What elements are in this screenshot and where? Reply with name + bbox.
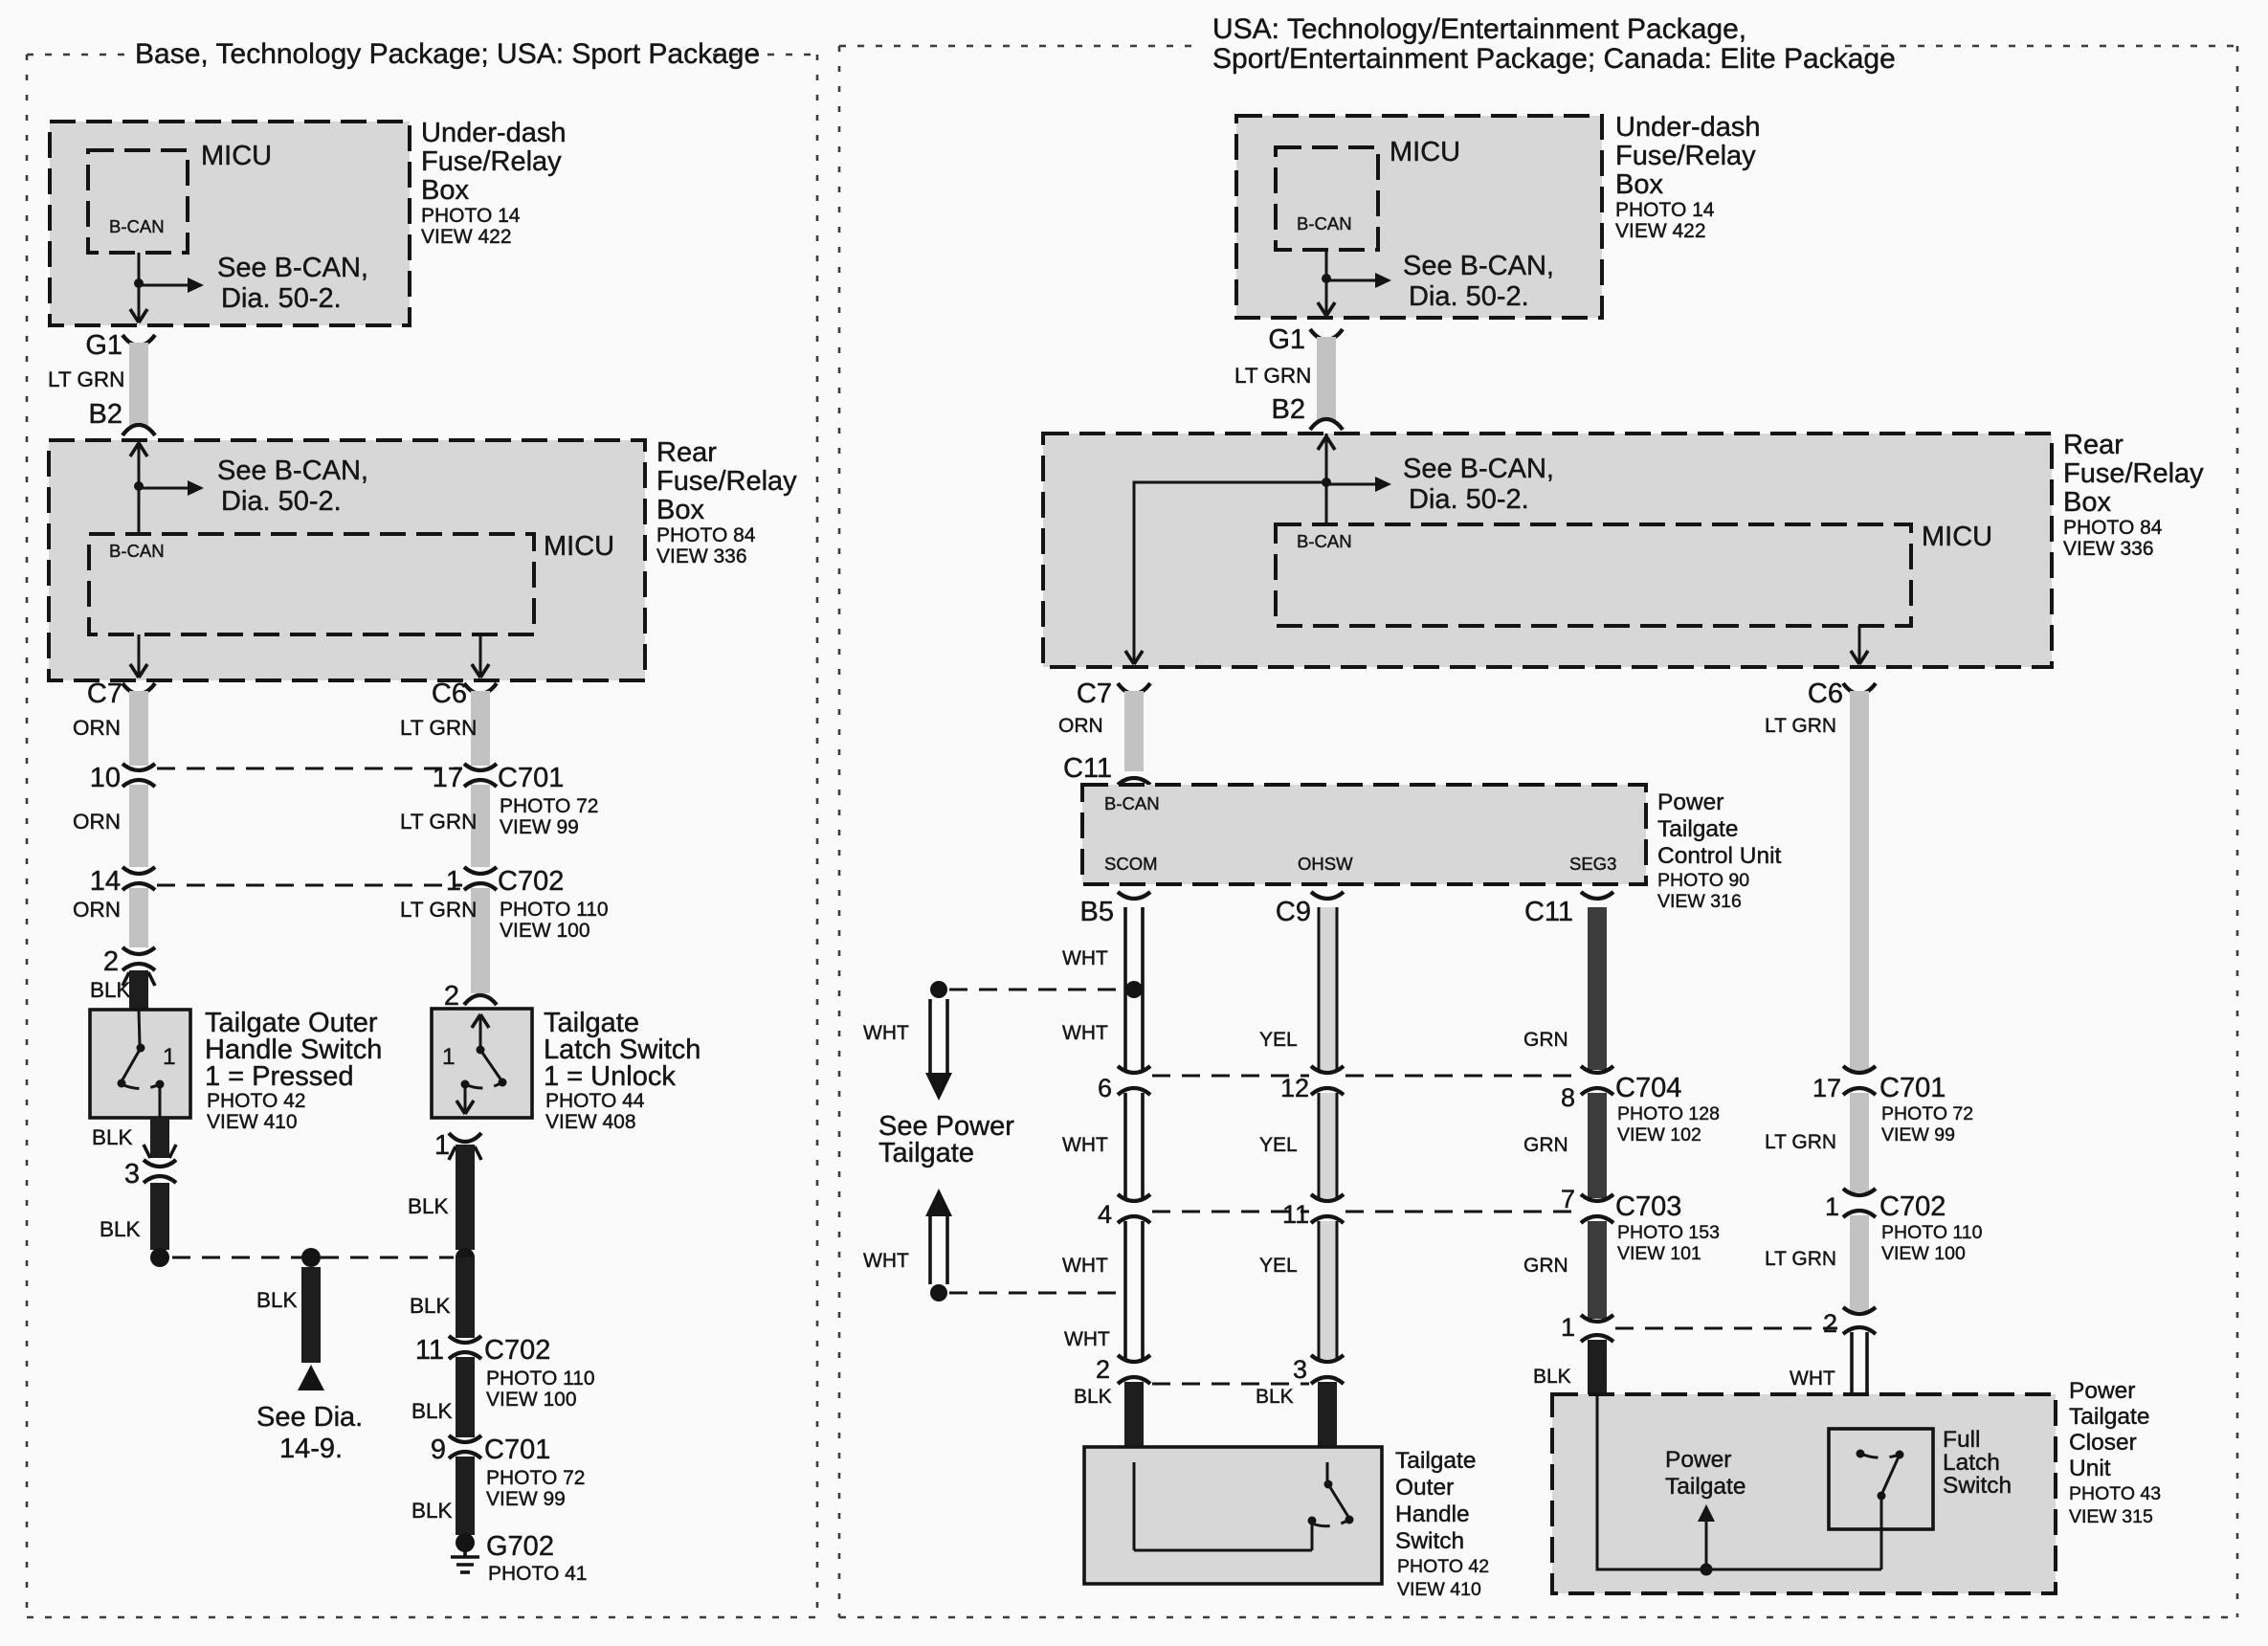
MICU inner box (left rear) [89, 534, 534, 634]
svg-text:Tailgate: Tailgate [1657, 816, 1738, 842]
svg-text:Dia. 50-2.: Dia. 50-2. [1409, 281, 1529, 312]
junction dot left arrow bottom [930, 1284, 947, 1301]
svg-text:OHSW: OHSW [1298, 854, 1353, 874]
Under-dash Fuse/Relay Box (right) [1236, 116, 1602, 318]
dashed link 4-11-7 [1152, 1211, 1309, 1213]
svg-text:Under-dash: Under-dash [421, 118, 567, 148]
stub wire BLK to See Dia (left) [301, 1267, 321, 1363]
svg-text:B-CAN: B-CAN [1297, 531, 1352, 551]
svg-text:VIEW 422: VIEW 422 [421, 226, 512, 248]
wire ORN C7-C11 (right) [1124, 691, 1144, 771]
svg-text:LT GRN: LT GRN [400, 898, 477, 922]
svg-text:See B-CAN,: See B-CAN, [1403, 454, 1554, 484]
wire BLK latch-junction (left) [456, 1145, 475, 1250]
MICU inner box (left under-dash) [88, 150, 188, 253]
svg-text:Dia. 50-2.: Dia. 50-2. [221, 486, 342, 517]
svg-text:PHOTO 42: PHOTO 42 [1397, 1556, 1489, 1577]
svg-text:2: 2 [103, 946, 119, 977]
junction dot on bus [1701, 1564, 1713, 1576]
svg-text:PHOTO 110: PHOTO 110 [486, 1368, 595, 1390]
svg-text:VIEW 410: VIEW 410 [207, 1111, 298, 1133]
svg-text:Switch: Switch [1395, 1528, 1464, 1554]
wire BLK B5 into handle switch (right) [1124, 1382, 1144, 1464]
arrow to See B-CAN (left rear) [139, 487, 193, 490]
junction dot on B5 [1125, 981, 1143, 998]
Tailgate Latch Switch (left) [432, 1009, 532, 1118]
svg-text:B5: B5 [1080, 897, 1114, 927]
wire GRN C11 seg1 [1588, 907, 1607, 1070]
svg-text:VIEW 100: VIEW 100 [500, 920, 590, 942]
svg-text:PHOTO 72: PHOTO 72 [1881, 1103, 1973, 1124]
svg-text:VIEW 100: VIEW 100 [486, 1389, 577, 1411]
svg-text:1: 1 [1561, 1313, 1575, 1342]
svg-text:PHOTO 110: PHOTO 110 [1881, 1222, 1983, 1243]
svg-text:3: 3 [124, 1159, 140, 1190]
svg-text:GRN: GRN [1523, 1134, 1568, 1156]
svg-text:VIEW 99: VIEW 99 [500, 816, 579, 838]
svg-text:8: 8 [1561, 1083, 1575, 1112]
svg-text:B-CAN: B-CAN [1104, 793, 1160, 813]
svg-text:1: 1 [163, 1044, 176, 1070]
wire BLK 9-G702 (left) [456, 1457, 475, 1535]
svg-text:C701: C701 [1879, 1073, 1946, 1103]
svg-text:LT GRN: LT GRN [400, 716, 477, 740]
svg-text:Box: Box [421, 175, 469, 206]
svg-text:VIEW 102: VIEW 102 [1617, 1124, 1701, 1146]
svg-text:YEL: YEL [1259, 1255, 1298, 1277]
svg-text:G1: G1 [1268, 324, 1305, 355]
svg-text:Dia. 50-2.: Dia. 50-2. [1409, 484, 1529, 515]
svg-text:BLK: BLK [1074, 1386, 1112, 1408]
dashed link to WHT arrow [949, 989, 1123, 991]
wire to C6 (left rear) [479, 634, 482, 678]
svg-text:Latch: Latch [1943, 1450, 2000, 1476]
svg-text:BLK: BLK [410, 1294, 451, 1318]
svg-text:PHOTO 72: PHOTO 72 [486, 1467, 585, 1489]
svg-text:1: 1 [1825, 1192, 1839, 1221]
wire YEL C9 seg3 [1319, 1221, 1337, 1359]
svg-text:Tailgate: Tailgate [878, 1138, 974, 1168]
wire B2 into rear box (left) [138, 440, 141, 534]
svg-text:C7: C7 [1077, 678, 1112, 709]
svg-text:PHOTO 14: PHOTO 14 [1615, 199, 1715, 221]
wire GRN C11 seg3 [1588, 1221, 1607, 1319]
svg-text:VIEW 101: VIEW 101 [1617, 1243, 1701, 1264]
svg-text:Rear: Rear [2063, 430, 2123, 460]
svg-text:Fuse/Relay: Fuse/Relay [2063, 458, 2204, 489]
svg-text:B2: B2 [1272, 394, 1305, 425]
junction node A (left bottom) [150, 1248, 169, 1267]
up triangle arrow (See Dia) [298, 1365, 324, 1390]
Tailgate Outer Handle Switch (right) [1084, 1447, 1382, 1584]
wire from B-CAN down (right under-dash) [1325, 250, 1328, 316]
svg-text:VIEW 410: VIEW 410 [1397, 1579, 1481, 1600]
svg-text:VIEW 408: VIEW 408 [545, 1111, 636, 1133]
svg-text:Fuse/Relay: Fuse/Relay [656, 466, 797, 497]
svg-text:ORN: ORN [73, 716, 121, 740]
svg-text:WHT: WHT [863, 1250, 909, 1272]
svg-text:C701: C701 [498, 763, 564, 793]
wire LT GRN 1-2 (left) [471, 888, 490, 993]
up arrow Power Tailgate [1705, 1512, 1708, 1569]
svg-text:Fuse/Relay: Fuse/Relay [421, 146, 562, 177]
down arrow at box exit (left under-dash) [130, 309, 147, 323]
svg-text:2: 2 [1096, 1355, 1110, 1384]
junction node (left rear) [134, 481, 144, 491]
WHT down arrow (See Power Tailgate) [930, 999, 947, 1074]
dashed link 6-12-8 [1152, 1075, 1309, 1078]
svg-text:12: 12 [1280, 1074, 1309, 1102]
branch wire to C7 (right rear) [1134, 482, 1326, 664]
WHT up arrow (See Power Tailgate) [925, 1189, 952, 1216]
svg-text:VIEW 316: VIEW 316 [1657, 891, 1742, 912]
junction dot left arrow top [930, 981, 947, 998]
svg-text:Handle: Handle [1395, 1501, 1470, 1527]
svg-text:SEG3: SEG3 [1569, 854, 1616, 874]
svg-text:WHT: WHT [1062, 1255, 1108, 1277]
svg-text:PHOTO 153: PHOTO 153 [1617, 1222, 1720, 1243]
svg-text:Control Unit: Control Unit [1657, 843, 1782, 869]
wire ORN 14-2 (left) [129, 888, 148, 947]
svg-text:LT GRN: LT GRN [1234, 364, 1311, 388]
left panel dotted border [27, 55, 817, 1617]
svg-text:VIEW 99: VIEW 99 [486, 1488, 566, 1510]
svg-text:Tailgate: Tailgate [2069, 1404, 2149, 1430]
svg-text:BLK: BLK [90, 978, 131, 1002]
Under-dash Fuse/Relay Box (left) [50, 122, 410, 325]
internal wire from BLK [1597, 1394, 1881, 1569]
Full Latch Switch box [1829, 1429, 1933, 1529]
wire WHT into closer unit [1852, 1332, 1867, 1451]
svg-text:Power: Power [1657, 790, 1723, 815]
Rear Fuse/Relay Box (right) [1043, 434, 2052, 667]
svg-text:PHOTO 84: PHOTO 84 [656, 524, 756, 546]
svg-text:GRN: GRN [1523, 1255, 1568, 1277]
svg-text:YEL: YEL [1259, 1134, 1298, 1156]
wire BLK junction-11 (left) [456, 1257, 475, 1338]
svg-text:PHOTO 72: PHOTO 72 [500, 795, 598, 817]
wire LT GRN G1-B2 (right) [1317, 337, 1336, 421]
svg-text:MICU: MICU [201, 141, 272, 171]
MICU inner box (right rear) [1276, 524, 1911, 626]
svg-text:Switch: Switch [1943, 1473, 2012, 1499]
svg-text:14-9.: 14-9. [279, 1434, 343, 1464]
svg-text:6: 6 [1098, 1074, 1112, 1102]
svg-text:Sport/Entertainment Package; C: Sport/Entertainment Package; Canada: Eli… [1212, 43, 1896, 75]
svg-text:MICU: MICU [1390, 137, 1460, 167]
svg-text:Dia. 50-2.: Dia. 50-2. [221, 283, 342, 314]
wire LT GRN C6-17 (left) [471, 691, 490, 766]
svg-text:GRN: GRN [1523, 1029, 1568, 1051]
svg-text:1 = Unlock: 1 = Unlock [544, 1061, 676, 1092]
junction node B (left bottom) [301, 1248, 321, 1267]
svg-text:C702: C702 [1879, 1191, 1946, 1222]
svg-text:PHOTO 128: PHOTO 128 [1617, 1103, 1720, 1124]
right panel dotted border [839, 46, 2237, 1617]
svg-text:C11: C11 [1524, 897, 1573, 927]
wire BLK into closer unit [1588, 1340, 1607, 1407]
svg-text:See Dia.: See Dia. [256, 1402, 363, 1433]
svg-text:See B-CAN,: See B-CAN, [1403, 251, 1554, 281]
svg-text:C7: C7 [87, 678, 122, 709]
svg-text:PHOTO 84: PHOTO 84 [2063, 517, 2163, 539]
svg-text:Tailgate: Tailgate [1665, 1474, 1745, 1500]
wire BLK below handle switch (left) [150, 1118, 169, 1158]
svg-text:LT GRN: LT GRN [48, 367, 124, 391]
svg-text:Closer: Closer [2069, 1430, 2137, 1456]
svg-text:G702: G702 [486, 1531, 554, 1562]
svg-text:PHOTO 110: PHOTO 110 [500, 899, 609, 921]
svg-text:C704: C704 [1615, 1073, 1681, 1103]
Rear Fuse/Relay Box (left) [49, 440, 645, 680]
svg-text:4: 4 [1098, 1200, 1112, 1229]
svg-text:ORN: ORN [73, 810, 121, 834]
svg-text:1: 1 [446, 866, 461, 897]
svg-text:VIEW 336: VIEW 336 [656, 545, 747, 567]
svg-text:11: 11 [415, 1335, 444, 1366]
svg-text:Box: Box [1615, 169, 1663, 200]
svg-text:WHT: WHT [863, 1022, 909, 1044]
svg-text:LT GRN: LT GRN [1765, 1131, 1836, 1153]
svg-text:Box: Box [656, 495, 704, 525]
svg-text:LT GRN: LT GRN [400, 810, 477, 834]
svg-text:C701: C701 [484, 1435, 550, 1465]
svg-text:YEL: YEL [1259, 1029, 1298, 1051]
svg-text:C6: C6 [1808, 678, 1843, 709]
svg-text:PHOTO 43: PHOTO 43 [2069, 1483, 2161, 1504]
arrow to See B-CAN (left under-dash) [139, 284, 193, 287]
svg-text:VIEW 336: VIEW 336 [2063, 538, 2154, 560]
svg-text:B-CAN: B-CAN [1297, 213, 1352, 234]
svg-text:Rear: Rear [656, 437, 717, 468]
svg-text:PHOTO 90: PHOTO 90 [1657, 870, 1749, 891]
dashed ground bus (left bottom) [172, 1257, 454, 1259]
svg-text:C11: C11 [1063, 753, 1112, 784]
svg-text:ORN: ORN [1058, 715, 1103, 737]
svg-text:USA: Technology/Entertainment: USA: Technology/Entertainment Package, [1212, 13, 1746, 45]
svg-text:SCOM: SCOM [1104, 854, 1158, 874]
junction node (left under-dash) [134, 278, 144, 288]
dashed link 14-1 [157, 884, 462, 887]
svg-text:PHOTO 41: PHOTO 41 [488, 1563, 587, 1585]
svg-text:WHT: WHT [1062, 1134, 1108, 1156]
svg-text:1 = Pressed: 1 = Pressed [205, 1061, 354, 1092]
svg-text:17: 17 [433, 763, 463, 793]
up arrow into B2 (left rear) [130, 443, 147, 456]
svg-text:Fuse/Relay: Fuse/Relay [1615, 141, 1756, 171]
wire WHT B5 seg2 [1125, 1093, 1143, 1198]
svg-text:9: 9 [431, 1435, 446, 1465]
svg-text:1: 1 [442, 1044, 456, 1070]
svg-text:C702: C702 [498, 866, 564, 897]
ground G702 [456, 1533, 475, 1552]
wire LT GRN G1-B2 (left) [129, 343, 148, 427]
svg-text:17: 17 [1812, 1074, 1841, 1102]
svg-text:Unit: Unit [2069, 1456, 2111, 1481]
svg-text:Power: Power [1665, 1447, 1731, 1473]
svg-text:2: 2 [444, 981, 459, 1012]
svg-text:VIEW 99: VIEW 99 [1881, 1124, 1955, 1146]
svg-text:BLK: BLK [92, 1125, 133, 1149]
svg-text:10: 10 [90, 763, 121, 793]
svg-text:See B-CAN,: See B-CAN, [217, 456, 368, 486]
junction node (right under-dash) [1322, 274, 1331, 283]
svg-text:WHT: WHT [1062, 1022, 1108, 1044]
svg-text:LT GRN: LT GRN [1765, 715, 1836, 737]
svg-text:7: 7 [1561, 1185, 1575, 1213]
junction node C (left bottom) [456, 1248, 475, 1267]
svg-text:WHT: WHT [1062, 947, 1108, 969]
svg-text:LT GRN: LT GRN [1765, 1248, 1836, 1270]
svg-text:MICU: MICU [544, 531, 614, 562]
svg-text:B-CAN: B-CAN [109, 541, 165, 561]
svg-text:MICU: MICU [1922, 522, 1992, 552]
wire YEL C9 seg2 [1319, 1093, 1337, 1198]
svg-text:VIEW 315: VIEW 315 [2069, 1506, 2153, 1527]
svg-text:1: 1 [434, 1130, 450, 1161]
svg-text:Full: Full [1943, 1427, 1980, 1453]
svg-text:Outer: Outer [1395, 1475, 1454, 1501]
wire LT GRN 1-2 (right far) [1850, 1215, 1869, 1311]
svg-text:BLK: BLK [411, 1499, 453, 1523]
svg-text:Box: Box [2063, 487, 2111, 518]
svg-text:G1: G1 [85, 330, 122, 361]
svg-text:2: 2 [1823, 1309, 1837, 1338]
svg-text:See B-CAN,: See B-CAN, [217, 253, 368, 283]
svg-text:3: 3 [1293, 1355, 1307, 1384]
svg-text:14: 14 [90, 866, 121, 897]
dashed link 2-3 [1152, 1383, 1309, 1386]
junction node (right rear) [1322, 478, 1331, 487]
svg-text:PHOTO 44: PHOTO 44 [545, 1090, 645, 1112]
svg-text:Under-dash: Under-dash [1615, 112, 1761, 143]
svg-text:C9: C9 [1276, 897, 1311, 927]
svg-text:ORN: ORN [73, 898, 121, 922]
wire WHT B5 seg1 [1125, 907, 1143, 1070]
up arrow into B2 (right rear) [1318, 436, 1335, 450]
Power Tailgate Closer Unit [1552, 1394, 2056, 1593]
dashed link 10-17 [157, 767, 462, 770]
wire to C7 (left rear) [138, 634, 141, 678]
wire BLK 11-9 (left) [456, 1357, 475, 1437]
MICU inner box (right under-dash) [1276, 147, 1378, 250]
svg-text:PHOTO 14: PHOTO 14 [421, 205, 521, 227]
svg-text:VIEW 422: VIEW 422 [1615, 220, 1706, 242]
arrow to See B-CAN (right under-dash) [1326, 279, 1381, 282]
wire B2 into rear box (right) [1325, 434, 1328, 524]
svg-text:BLK: BLK [100, 1217, 141, 1241]
Power Tailgate Control Unit [1082, 785, 1646, 884]
svg-text:WHT: WHT [1790, 1368, 1835, 1390]
wire to C6 (right rear) [1858, 626, 1861, 664]
wire YEL C9 seg1 [1319, 907, 1337, 1070]
svg-text:WHT: WHT [1064, 1328, 1110, 1350]
svg-text:C702: C702 [484, 1335, 550, 1366]
wire BLK into handle switch (left) [129, 970, 148, 1010]
dashed link to B5 [949, 1292, 1123, 1295]
svg-text:Tailgate: Tailgate [1395, 1448, 1476, 1474]
svg-text:PHOTO 42: PHOTO 42 [207, 1090, 305, 1112]
svg-text:B2: B2 [89, 399, 122, 430]
svg-text:BLK: BLK [1256, 1386, 1294, 1408]
wire BLK 3-junction (left) [150, 1183, 169, 1250]
wire LT GRN 17-1 (right far) [1850, 1093, 1869, 1192]
svg-text:VIEW 100: VIEW 100 [1881, 1243, 1966, 1264]
arrow to See B-CAN (right rear) [1326, 483, 1381, 486]
svg-text:Base, Technology Package; USA:: Base, Technology Package; USA: Sport Pac… [135, 38, 760, 70]
dashed link 1-2 (GRN to WHT) [1615, 1327, 1837, 1330]
svg-text:B-CAN: B-CAN [109, 216, 165, 236]
svg-text:C6: C6 [432, 678, 467, 709]
svg-text:BLK: BLK [408, 1194, 449, 1218]
Tailgate Outer Handle Switch (left) [90, 1010, 190, 1118]
svg-text:C703: C703 [1615, 1191, 1681, 1222]
wire LT GRN 17-1 (left) [471, 785, 490, 867]
down arrow at box exit (right under-dash) [1318, 302, 1335, 316]
wire from B-CAN down (left under-dash) [138, 253, 141, 323]
wire LT GRN C6-17 (right, long) [1850, 691, 1869, 1072]
wire BLK C9 into handle switch (right) [1318, 1382, 1337, 1457]
svg-text:Power: Power [2069, 1378, 2135, 1404]
wire ORN C7-10 (left) [129, 691, 148, 766]
wire ORN 10-14 (left) [129, 785, 148, 867]
svg-text:11: 11 [1282, 1200, 1309, 1229]
wire WHT B5 seg3 [1125, 1221, 1143, 1359]
svg-text:BLK: BLK [411, 1399, 453, 1423]
svg-text:BLK: BLK [256, 1288, 298, 1312]
svg-text:BLK: BLK [1533, 1366, 1571, 1388]
wire GRN C11 seg2 [1588, 1093, 1607, 1198]
